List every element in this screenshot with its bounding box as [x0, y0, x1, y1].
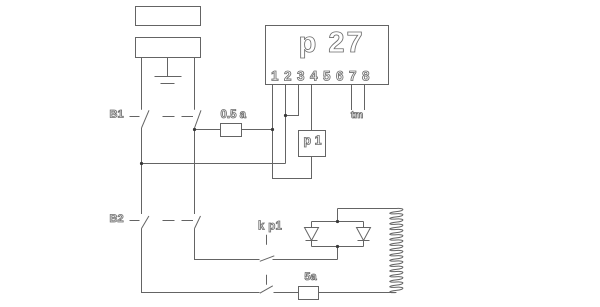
svg-text:k p1: k p1 [258, 220, 283, 232]
svg-text:B1: B1 [110, 108, 124, 120]
svg-text:6: 6 [336, 68, 344, 83]
svg-text:4: 4 [310, 68, 318, 83]
svg-text:0.5 a: 0.5 a [221, 109, 247, 121]
svg-text:tm: tm [351, 110, 363, 121]
svg-text:8: 8 [362, 68, 370, 83]
svg-text:5: 5 [323, 68, 331, 83]
svg-text:B2: B2 [110, 213, 124, 225]
svg-text:p 27: p 27 [299, 27, 365, 59]
svg-text:p 1: p 1 [303, 134, 321, 148]
svg-text:5a: 5a [304, 271, 317, 283]
svg-text:3: 3 [297, 68, 305, 83]
svg-text:7: 7 [349, 68, 357, 83]
svg-text:2: 2 [284, 68, 292, 83]
svg-text:1: 1 [271, 68, 279, 83]
